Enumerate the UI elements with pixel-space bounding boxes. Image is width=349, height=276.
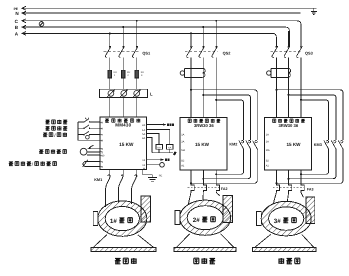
switch: VF start (Bian Pin Qi Dong) [78, 118, 100, 123]
svg-text:A1: A1 [181, 165, 185, 168]
wire: bypass2 top runs [191, 90, 257, 140]
wire: KM1 to pump1 leads [106, 175, 137, 207]
pump 1# motor body [98, 201, 147, 236]
pump 2# discharge flange [223, 196, 233, 223]
label: pump 3# (shui beng) [274, 218, 296, 225]
wire: bypass2 bottom runs [191, 150, 257, 184]
svg-text:2#: 2# [193, 217, 200, 224]
svg-text:QS3: QS3 [305, 50, 314, 55]
ground (inverter U1) [143, 169, 163, 181]
wire: analog output arrow [147, 158, 170, 161]
wire: U1 to relay KA2 [147, 130, 170, 145]
soft starter U2 (Siemens 3RW30) [180, 118, 227, 170]
svg-text:MA: MA [266, 149, 270, 152]
label: U1 title (Xi Men Zi Bian Pin Qi) [105, 119, 140, 123]
svg-text:1A: 1A [181, 134, 184, 137]
wire: QS1 to fuses [110, 57, 137, 70]
node: bypass2 taps [190, 89, 217, 101]
pump 1# suction flange [93, 211, 98, 225]
wire: gauge output lollipop [147, 163, 165, 168]
disconnect switch QS3 [270, 46, 313, 57]
svg-text:L: L [150, 91, 153, 96]
svg-text:KA: KA [168, 146, 172, 149]
wire: fuses to reactor [110, 78, 137, 89]
svg-text:B2: B2 [181, 160, 185, 163]
wire: bypass3 top runs [276, 90, 343, 140]
wire: bypass3 bottom runs [276, 150, 343, 184]
wire: control common vertical [77, 122, 79, 140]
bus N [15, 11, 300, 16]
node: branch2 taps [190, 20, 217, 35]
pump 2# motor body [180, 200, 231, 235]
pin labels: U1 left terminals [100, 121, 105, 169]
node: branch1 taps [109, 20, 138, 35]
bus PE [14, 6, 317, 11]
svg-text:5A: 5A [142, 133, 145, 136]
svg-text:KA: KA [158, 146, 162, 149]
relay KA2 [166, 145, 173, 150]
relay KA1 [156, 145, 162, 150]
svg-text:PE: PE [159, 174, 163, 177]
label: U1 model MM430 [115, 123, 131, 128]
label: pump 2# type [194, 258, 215, 264]
svg-text:2A: 2A [181, 141, 184, 144]
current transformer (branch 2) [180, 68, 205, 77]
switch: fault reset (Gu Zhang Fu Wei) [78, 125, 100, 129]
wire: relay commons [152, 149, 177, 155]
svg-text:3RW30 36: 3RW30 36 [194, 123, 214, 128]
label: pump 1# type [115, 258, 137, 264]
svg-text:3#: 3# [274, 218, 281, 225]
label: U1 rating 15 KW [119, 142, 134, 147]
wire: alarm output with arrow [147, 123, 175, 126]
label: VF start [45, 120, 67, 124]
node: bypass3 taps [275, 89, 302, 101]
label: U2 title (soft start) [188, 119, 220, 123]
soft starter U3 (Siemens 3RW30) [265, 118, 312, 170]
wire: U1 to relay KA1 [147, 134, 159, 145]
svg-text:1A: 1A [266, 134, 269, 137]
switch: manual/auto (Shou Dong / Zi Dong) [78, 131, 100, 139]
label: frequency set / pressure set [9, 161, 57, 167]
label: U3 title (soft start) [273, 119, 305, 123]
svg-text:KM3: KM3 [314, 143, 322, 147]
pin labels: U3 left terminals [266, 134, 270, 168]
contactor KM3 bypass contacts [314, 141, 343, 150]
svg-text:2A: 2A [142, 124, 145, 127]
fuse FU2 [121, 70, 130, 78]
label: pump 3# type [278, 258, 299, 264]
svg-text:MA: MA [181, 149, 185, 152]
wire: branch3 drops to QS3 [276, 25, 301, 47]
inverter U1 (Siemens MM430) [100, 117, 147, 169]
thermal overload FA2 [188, 170, 228, 192]
svg-text:2A: 2A [266, 141, 269, 144]
pump 3# discharge flange [306, 197, 315, 224]
disconnect switch QS2 [185, 46, 231, 57]
bus B [15, 25, 290, 46]
svg-text:1A: 1A [142, 129, 145, 132]
svg-text:A1: A1 [266, 165, 270, 168]
bus C [15, 19, 301, 47]
fuse FU1 [108, 70, 117, 78]
reactor L [99, 89, 153, 97]
svg-text:15 KW: 15 KW [119, 142, 134, 147]
label: fault reset [45, 126, 67, 130]
wire: QS3 to U3 [276, 57, 301, 117]
label: pressure transmitter [39, 149, 66, 153]
pump 2# base [174, 234, 236, 252]
pin labels: U2 left terminals [181, 134, 185, 168]
contactor KM1 contacts [94, 169, 137, 182]
svg-text:QS2: QS2 [223, 50, 232, 55]
pump 1# discharge flange [141, 196, 151, 222]
node: bypass2 rejoins [190, 173, 217, 184]
svg-text:QS1: QS1 [142, 50, 151, 55]
pump 3# base [253, 234, 317, 251]
contactor KM2 bypass contacts [229, 141, 257, 150]
svg-text:B2: B2 [266, 160, 270, 163]
wire: control common to U1 [78, 139, 100, 141]
wire: FA3 to pump3 leads [274, 192, 304, 204]
tap symbol on bus C [39, 20, 44, 27]
bus A [15, 31, 277, 46]
svg-text:4A: 4A [142, 137, 145, 140]
pump 3# motor body [261, 201, 311, 236]
svg-text:15 KW: 15 KW [286, 142, 301, 147]
pin labels: U1 right terminals [142, 124, 146, 171]
svg-text:KM2: KM2 [229, 143, 237, 147]
wire: FA2 to pump2 leads [189, 192, 221, 204]
svg-text:MM430: MM430 [115, 123, 131, 128]
wire: branch1 drops to QS1 [110, 21, 137, 47]
thermal overload FA3 [273, 170, 314, 192]
node: bypass3 rejoins [275, 173, 302, 184]
pump 2# suction flange [175, 211, 180, 225]
label: pump 2# (shui beng) [193, 217, 215, 224]
disconnect switch QS1 [104, 46, 151, 57]
svg-text:KM1: KM1 [94, 178, 102, 182]
wire: reactor to inverter [110, 98, 137, 118]
ground (PE bus right end) [311, 8, 317, 14]
pressure transmitter (Yuan Chuan Ya Li Biao) [80, 145, 100, 155]
label: manual/auto [43, 132, 67, 138]
fuse FU3 [135, 70, 144, 78]
svg-text:FA2: FA2 [221, 187, 228, 191]
label: U2 rating 15 KW [195, 142, 210, 147]
svg-text:15 KW: 15 KW [195, 142, 210, 147]
label: pump 1# (shui beng) [110, 218, 132, 225]
svg-text:FA3: FA3 [307, 188, 314, 192]
label: U2 model 3RW30 36 [194, 123, 214, 128]
wire: branch2 drops to QS2 [191, 21, 216, 47]
pump 3# suction flange [257, 211, 262, 225]
svg-text:1#: 1# [110, 218, 117, 225]
pump 1# base [91, 235, 156, 252]
current transformer (branch 3) [267, 68, 291, 77]
potentiometer: frequency/pressure setting [83, 160, 100, 167]
wire: U1 aux to relay common [147, 138, 153, 153]
label: U3 rating 15 KW [286, 142, 301, 147]
wire: QS2 to U2 [191, 57, 216, 117]
label: U3 model 3RW30 36 [278, 123, 298, 128]
svg-text:M: M [143, 168, 145, 171]
svg-text:3RW30 36: 3RW30 36 [278, 123, 298, 128]
